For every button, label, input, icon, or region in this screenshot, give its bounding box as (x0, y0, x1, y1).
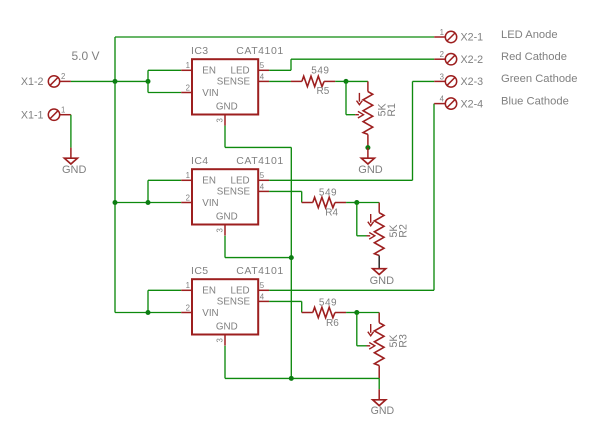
junction (113, 79, 118, 84)
svg-text:GND: GND (358, 164, 383, 176)
svg-text:3: 3 (216, 118, 225, 122)
svg-text:GND: GND (216, 322, 238, 333)
ground GND1 (64, 158, 77, 164)
svg-text:549: 549 (319, 298, 337, 309)
svg-text:VIN: VIN (202, 88, 218, 99)
resistor R5 lead (324, 80, 335, 82)
svg-text:EN: EN (202, 285, 216, 296)
junction (365, 145, 370, 150)
ground (373, 400, 386, 406)
svg-text:4: 4 (260, 182, 265, 191)
connector X1-2 (48, 76, 59, 87)
wire (148, 92, 181, 94)
svg-text:LED Anode: LED Anode (501, 29, 558, 41)
wire (335, 80, 346, 82)
pin 1 IC4 (181, 179, 192, 181)
ground pin (378, 389, 380, 400)
wire (269, 80, 291, 82)
svg-text:2: 2 (186, 83, 190, 92)
svg-text:4: 4 (260, 72, 265, 81)
svg-text:Red Cathode: Red Cathode (501, 51, 567, 63)
wire (148, 289, 181, 291)
svg-text:3: 3 (216, 338, 225, 342)
svg-text:549: 549 (311, 65, 329, 76)
svg-text:GND: GND (216, 212, 238, 223)
svg-text:IC4: IC4 (191, 155, 209, 167)
svg-text:SENSE: SENSE (217, 296, 251, 307)
pin X2-4 stub (434, 103, 445, 105)
pin 4 IC5 (258, 300, 269, 302)
svg-text:GND: GND (62, 164, 87, 176)
trimmer R1 (363, 92, 373, 135)
svg-text:GND: GND (371, 405, 395, 417)
wire (269, 289, 434, 291)
junction (146, 79, 151, 84)
op-amp IC3 box (192, 59, 258, 114)
trimmer R1 wiper (355, 111, 363, 118)
trimmer R3 pin (378, 366, 380, 379)
wire (346, 114, 355, 116)
svg-text:R2: R2 (397, 224, 409, 238)
wire (115, 36, 434, 38)
svg-text:549: 549 (319, 187, 337, 198)
svg-text:Green Cathode: Green Cathode (501, 73, 578, 85)
svg-text:VIN: VIN (202, 198, 218, 209)
resistor R6 (313, 307, 335, 317)
resistor R6 lead (335, 312, 346, 314)
pin 4 IC4 (258, 190, 269, 192)
pin 5 IC3 (258, 69, 269, 71)
wire (269, 190, 302, 192)
svg-text:5: 5 (260, 61, 265, 70)
svg-text:1: 1 (186, 281, 190, 290)
wire (224, 236, 226, 258)
wire (148, 69, 181, 71)
svg-text:5: 5 (260, 171, 265, 180)
svg-text:2: 2 (61, 72, 65, 81)
svg-text:X2-1: X2-1 (461, 32, 484, 44)
pin 5 IC4 (258, 179, 269, 181)
trimmer R2 pin (378, 203, 380, 213)
connector X2-2 (445, 54, 456, 65)
svg-text:1: 1 (440, 28, 444, 37)
svg-text:R4: R4 (325, 208, 338, 219)
svg-text:SENSE: SENSE (217, 186, 251, 197)
wire (357, 235, 367, 237)
svg-text:X1-1: X1-1 (21, 109, 44, 121)
wire (224, 346, 226, 379)
wire (71, 80, 148, 82)
ground pin (367, 148, 369, 159)
svg-text:X2-4: X2-4 (461, 98, 484, 110)
wire (412, 81, 414, 180)
ground (361, 158, 374, 164)
pin 2 IC4 (181, 202, 192, 204)
svg-text:IC3: IC3 (191, 45, 209, 57)
wire (413, 80, 435, 82)
junction (146, 310, 151, 315)
pin X1-2 stub (60, 80, 71, 82)
svg-text:X2-3: X2-3 (461, 76, 484, 88)
svg-text:R3: R3 (397, 334, 409, 348)
svg-text:IC5: IC5 (191, 265, 209, 277)
svg-text:R5: R5 (317, 86, 330, 97)
trimmer R1 arrow (357, 93, 363, 105)
pin 5 IC5 (258, 289, 269, 291)
trimmer R3 arrow (368, 324, 374, 336)
wire (346, 312, 357, 314)
trimmer R1 pin (367, 134, 369, 147)
svg-text:4: 4 (440, 95, 445, 104)
wire (147, 180, 149, 202)
wire (225, 377, 379, 379)
junction (289, 376, 294, 381)
trimmer R3 wiper (367, 343, 375, 350)
wire (433, 104, 435, 291)
wire (357, 202, 379, 204)
wire (290, 147, 292, 378)
wire (290, 59, 292, 70)
wire (356, 313, 358, 346)
svg-text:GND: GND (370, 275, 395, 287)
pin 2 IC3 (181, 92, 192, 94)
wire (225, 146, 291, 148)
wire (357, 345, 367, 347)
pin 3 IC5 (224, 335, 226, 346)
wire (269, 69, 291, 71)
svg-text:LED: LED (231, 175, 250, 186)
wire (114, 37, 116, 313)
resistor R5 lead (291, 80, 302, 82)
svg-text:GND: GND (216, 102, 238, 113)
svg-text:1: 1 (186, 61, 190, 70)
pin 4 IC3 (258, 80, 269, 82)
wire (147, 290, 149, 312)
svg-text:1: 1 (61, 106, 65, 115)
svg-text:5: 5 (260, 281, 265, 290)
svg-text:3: 3 (216, 228, 225, 232)
junction (113, 200, 118, 205)
pin 3 IC3 (224, 115, 226, 126)
connector X2-1 (445, 31, 456, 42)
svg-text:LED: LED (231, 285, 250, 296)
junction (289, 255, 294, 260)
pin X2-1 stub (434, 36, 445, 38)
svg-text:3: 3 (440, 72, 444, 81)
wire (357, 312, 379, 314)
trimmer R2 wiper (367, 233, 375, 240)
svg-text:CAT4101: CAT4101 (236, 265, 283, 277)
wire (147, 70, 149, 92)
wire (148, 179, 181, 181)
svg-text:4: 4 (260, 292, 265, 301)
svg-text:2: 2 (186, 303, 190, 312)
wire (115, 202, 181, 204)
wire (346, 80, 368, 82)
svg-text:2: 2 (440, 50, 444, 59)
wire (225, 257, 291, 259)
junction (146, 200, 151, 205)
svg-text:Blue Cathode: Blue Cathode (501, 95, 569, 107)
pin X1-1 stub (60, 114, 71, 116)
svg-text:X2-2: X2-2 (461, 54, 484, 66)
trimmer R2 arrow (368, 214, 374, 226)
svg-text:CAT4101: CAT4101 (236, 45, 283, 57)
op-amp IC4 box (192, 169, 258, 224)
wire (356, 203, 358, 236)
svg-text:SENSE: SENSE (217, 76, 251, 87)
svg-text:CAT4101: CAT4101 (236, 155, 283, 167)
wire (269, 300, 302, 302)
wire (345, 81, 347, 114)
wire (70, 115, 72, 148)
pin X2-2 stub (434, 58, 445, 60)
resistor R6 lead (302, 312, 313, 314)
svg-text:1: 1 (186, 171, 190, 180)
svg-text:2: 2 (186, 193, 190, 202)
wire (269, 179, 412, 181)
pin X2-3 stub (434, 80, 445, 82)
connector X2-4 (445, 98, 456, 109)
svg-text:VIN: VIN (202, 308, 218, 319)
resistor R5 (302, 76, 324, 86)
wire (301, 301, 303, 312)
wire (346, 202, 357, 204)
svg-text:LED: LED (231, 65, 250, 76)
pin 3 IC4 (224, 225, 226, 236)
resistor R4 (313, 197, 335, 207)
wire (115, 312, 181, 314)
wire (224, 126, 226, 148)
trimmer R3 pin (378, 313, 380, 323)
trimmer R2 (374, 213, 384, 256)
junction (344, 79, 349, 84)
trimmer R1 pin (367, 81, 369, 91)
ground (373, 269, 386, 275)
svg-text:5.0 V: 5.0 V (72, 49, 100, 63)
svg-text:R6: R6 (326, 318, 339, 329)
resistor R4 lead (302, 202, 313, 204)
junction (354, 310, 359, 315)
resistor R4 lead (335, 202, 346, 204)
connector X2-3 (445, 76, 456, 87)
svg-text:R1: R1 (386, 103, 398, 117)
svg-text:EN: EN (202, 175, 216, 186)
op-amp IC5 box (192, 279, 258, 334)
wire (378, 378, 380, 389)
wire (301, 191, 303, 202)
connector X1-1 (48, 109, 59, 120)
svg-text:X1-2: X1-2 (21, 76, 44, 88)
pin 1 IC5 (181, 289, 192, 291)
svg-text:EN: EN (202, 65, 216, 76)
pin 2 IC5 (181, 312, 192, 314)
wire (291, 58, 434, 60)
junction (354, 200, 359, 205)
pin 1 IC3 (181, 69, 192, 71)
trimmer R2 pin (378, 256, 380, 269)
ground GND1 pin (70, 148, 72, 159)
trimmer R3 (374, 323, 384, 366)
